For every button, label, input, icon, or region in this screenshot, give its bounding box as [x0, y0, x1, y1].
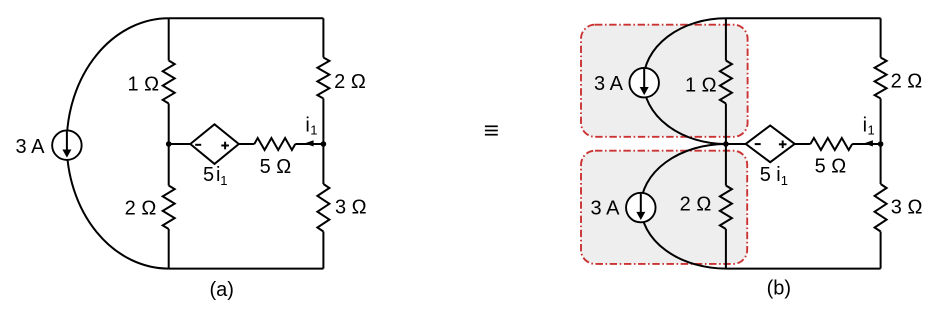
svg-text:2 Ω: 2 Ω — [334, 71, 366, 93]
wire: (b) middle branch top segment — [725, 18, 727, 60]
label 5i1 (b) — [760, 164, 788, 188]
resistor 3ohm (a) — [317, 184, 329, 232]
wire: (a) left branch bottom segment — [168, 229, 170, 269]
svg-text:2 Ω: 2 Ω — [125, 198, 157, 220]
svg-text:1 Ω: 1 Ω — [685, 75, 717, 97]
wire: (a) right branch bottom segment — [322, 232, 324, 269]
resistor 2ohm (a) left — [163, 186, 175, 230]
svg-text:3 A: 3 A — [594, 73, 624, 95]
wire: (a) right branch middle segment — [322, 99, 324, 185]
wire: (b) bottom rail — [726, 268, 881, 270]
label 5i1 (a) — [203, 164, 227, 188]
svg-text:3 A: 3 A — [16, 136, 46, 158]
resistor 5ohm (a) — [254, 138, 295, 150]
svg-text:5 Ω: 5 Ω — [815, 156, 847, 178]
svg-text:1 Ω: 1 Ω — [127, 74, 159, 96]
wire: (b) diamond to resistor — [795, 143, 811, 145]
current source 3A (b) top — [629, 68, 659, 98]
svg-text:5: 5 — [203, 164, 214, 186]
svg-text:3 Ω: 3 Ω — [335, 197, 367, 219]
svg-text:1: 1 — [868, 123, 875, 138]
wire: (a) left branch middle segment — [168, 104, 170, 186]
wire: (b) resistor to right node — [852, 143, 880, 145]
wire: (b) top source arc — [643, 18, 726, 144]
enclosure box bottom (b) — [581, 151, 747, 264]
polarity plus (a) — [221, 142, 229, 150]
svg-text:3 A: 3 A — [591, 198, 621, 220]
svg-text:(a): (a) — [209, 279, 233, 301]
wire: (b) right branch top segment — [880, 18, 882, 57]
wire: (a) top rail — [169, 17, 324, 19]
resistor 3ohm (b) — [875, 184, 887, 232]
node: (b) middle junction — [723, 141, 729, 147]
wire: (b) node to diamond — [726, 143, 746, 145]
wire: (a) resistor to right node — [295, 143, 323, 145]
polarity minus (a) — [195, 144, 201, 146]
polarity minus (b) — [755, 143, 761, 145]
svg-text:1: 1 — [220, 173, 227, 188]
wire: (b) middle branch center segment — [725, 104, 727, 186]
wire: (a) node to diamond — [169, 143, 191, 145]
resistor 2ohm (a) right — [317, 58, 329, 99]
resistor 5ohm (b) — [810, 138, 852, 150]
wire: (b) right branch middle segment — [880, 99, 882, 185]
resistor 2ohm (b) right — [875, 58, 887, 99]
resistor 1ohm (b) — [720, 61, 732, 104]
wire: (b) bottom source arc — [641, 144, 726, 269]
dependent source diamond 5i1 (a) — [190, 124, 239, 164]
node: (b) right middle junction — [878, 141, 884, 147]
node: (a) right middle junction — [321, 141, 327, 147]
wire: (b) middle branch bottom segment — [725, 229, 727, 269]
equivalence symbol — [485, 126, 498, 134]
svg-text:(b): (b) — [767, 278, 791, 300]
wire: (a) right branch top segment — [322, 18, 324, 57]
svg-text:1: 1 — [781, 173, 788, 188]
polarity plus (b) — [779, 141, 787, 149]
wire: (b) right branch bottom segment — [880, 232, 882, 269]
wire: (a) left source arc — [67, 18, 169, 268]
svg-text:5: 5 — [760, 164, 771, 186]
svg-text:i: i — [863, 115, 867, 137]
label i1 (b) — [863, 115, 875, 138]
svg-text:3 Ω: 3 Ω — [891, 197, 923, 219]
current arrow i1 (a) — [305, 140, 314, 146]
label i1 (a) — [305, 115, 317, 138]
wire: (a) bottom rail — [169, 268, 324, 270]
wire: (a) diamond to resistor — [239, 143, 255, 145]
svg-text:2 Ω: 2 Ω — [680, 194, 712, 216]
enclosure box top (b) — [581, 25, 748, 137]
current source 3A (b) bottom — [626, 193, 656, 223]
current arrow i1 (b) — [864, 140, 873, 146]
current source 3A (a) — [52, 130, 82, 160]
svg-text:1: 1 — [310, 123, 317, 138]
wire: (b) top rail — [726, 17, 881, 19]
svg-text:5 Ω: 5 Ω — [260, 156, 292, 178]
resistor 2ohm (b) middle — [720, 186, 732, 230]
svg-text:2 Ω: 2 Ω — [891, 71, 923, 93]
node: (a) left middle junction — [166, 141, 172, 147]
dependent source diamond 5i1 (b) — [746, 126, 795, 163]
svg-text:i: i — [305, 115, 309, 137]
resistor 1ohm (a) — [163, 61, 175, 104]
wire: (a) left branch top segment — [168, 18, 170, 60]
